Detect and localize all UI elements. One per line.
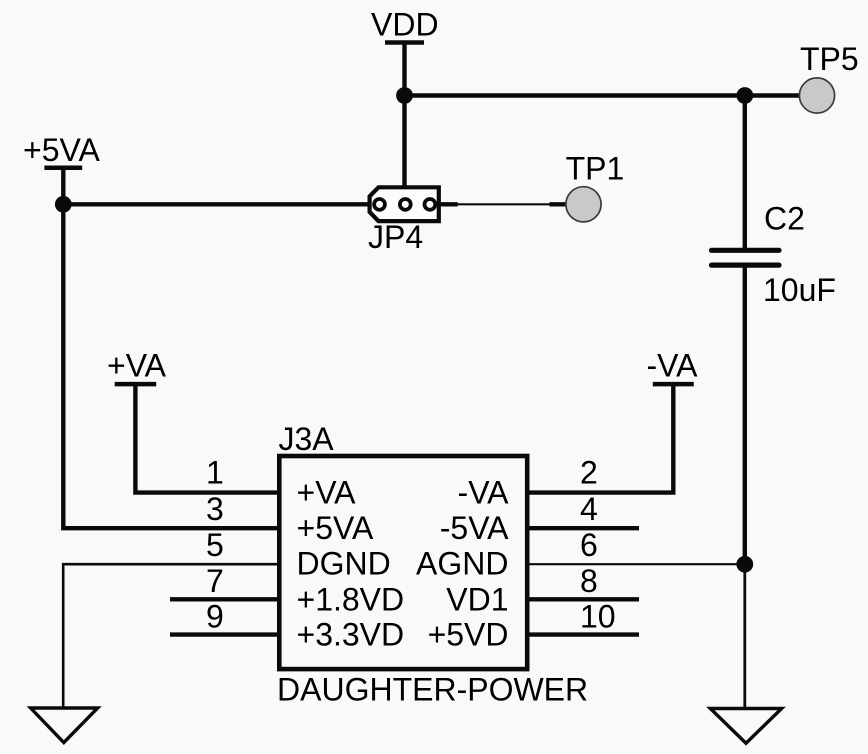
svg-text:5: 5 — [206, 527, 224, 563]
svg-text:-VA: -VA — [647, 348, 699, 384]
svg-text:9: 9 — [206, 599, 224, 635]
svg-text:8: 8 — [580, 563, 598, 599]
svg-text:JP4: JP4 — [368, 219, 423, 255]
svg-text:-5VA: -5VA — [440, 510, 509, 546]
svg-text:TP1: TP1 — [566, 150, 625, 186]
svg-text:VD1: VD1 — [446, 581, 508, 617]
svg-text:+5VA: +5VA — [23, 132, 100, 168]
svg-text:+VA: +VA — [107, 348, 167, 384]
svg-text:+5VD: +5VD — [428, 617, 509, 653]
svg-text:+3.3VD: +3.3VD — [297, 617, 405, 653]
svg-text:2: 2 — [580, 455, 598, 491]
svg-text:VDD: VDD — [371, 7, 439, 43]
svg-text:+VA: +VA — [297, 475, 357, 511]
svg-text:-VA: -VA — [458, 475, 510, 511]
svg-text:1: 1 — [206, 455, 224, 491]
svg-text:AGND: AGND — [416, 546, 508, 582]
svg-text:J3A: J3A — [279, 421, 335, 457]
svg-text:10uF: 10uF — [763, 272, 836, 308]
svg-text:3: 3 — [206, 491, 224, 527]
svg-text:DAUGHTER-POWER: DAUGHTER-POWER — [277, 672, 588, 708]
svg-text:6: 6 — [580, 527, 598, 563]
svg-text:4: 4 — [580, 491, 598, 527]
svg-text:+1.8VD: +1.8VD — [297, 581, 405, 617]
svg-text:C2: C2 — [764, 201, 805, 237]
svg-text:TP5: TP5 — [800, 41, 859, 77]
svg-text:+5VA: +5VA — [297, 510, 374, 546]
svg-text:10: 10 — [580, 599, 616, 635]
svg-text:7: 7 — [206, 563, 224, 599]
svg-text:DGND: DGND — [297, 546, 391, 582]
